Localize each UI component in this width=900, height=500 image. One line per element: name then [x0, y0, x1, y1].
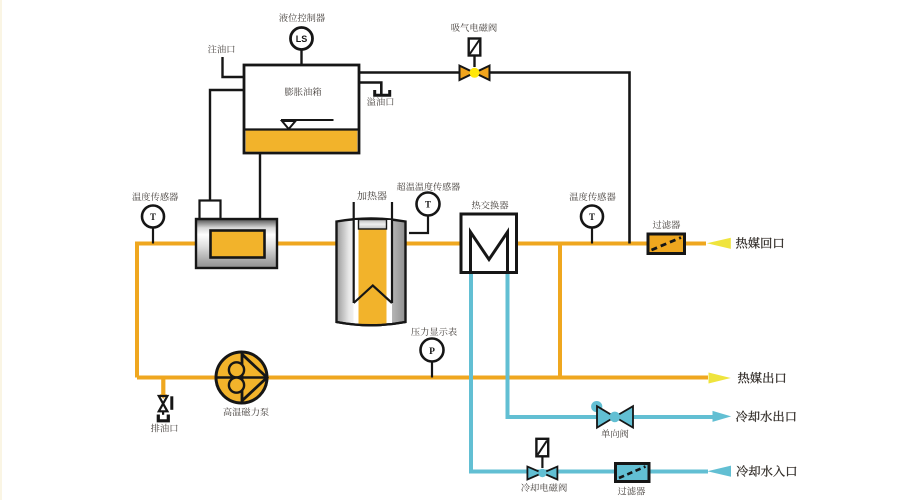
hot oil filter: [648, 234, 685, 254]
wire: loop riser pipe: [558, 244, 562, 378]
svg-text:T: T: [589, 212, 595, 222]
temperature sensor T3: [581, 206, 603, 228]
cooling solenoid valve body: [527, 467, 557, 480]
cooling valve actuator: [536, 439, 548, 457]
drain arrowhead: [160, 394, 167, 399]
wire: T1 stem: [152, 227, 154, 244]
temperature control unit body: [196, 219, 277, 268]
heater element chevron: [354, 286, 392, 304]
heater element leads: [353, 202, 355, 303]
label 冷却电磁阀 (cooling solenoid valve): [521, 483, 567, 492]
svg-text:P: P: [429, 347, 435, 357]
label 溢油口 (overflow port): [367, 97, 394, 106]
pump: high temperature magnetic pump: [216, 352, 267, 403]
page left edge tint: [0, 0, 2, 500]
heater inner channel: [354, 220, 393, 323]
suction valve ball: [470, 68, 480, 78]
heater core: [359, 221, 387, 325]
wire: oil inlet port line: [223, 57, 245, 77]
wire: hot oil supply pipe (top run): [137, 244, 706, 378]
controller terminal box: [200, 201, 221, 220]
svg-text:T: T: [425, 200, 431, 210]
cooling valve stem: [541, 457, 543, 469]
controller display window: [211, 231, 265, 258]
heater vessel: [337, 219, 406, 326]
heat exchanger coil M: [471, 232, 508, 273]
label 热交换器 (heat exchanger): [472, 201, 509, 210]
wire: cooling water inlet pipe: [471, 272, 708, 472]
wire: T2 stem: [409, 215, 428, 233]
wire: tank bottom to controller: [259, 153, 261, 219]
label 注油口 (oil fill port): [208, 45, 235, 54]
over-temperature sensor T2: [417, 193, 440, 216]
check valve body: [597, 406, 633, 427]
arrow: 冷却水出口 (cooling water outlet): [713, 411, 732, 422]
level indicator mark: [281, 119, 334, 121]
overflow port symbol: [375, 90, 390, 95]
wire: overflow line: [359, 83, 381, 95]
label 热媒回口: [736, 237, 783, 248]
heat exchanger body: [461, 214, 517, 273]
wire: LS stem: [300, 49, 302, 65]
label 压力显示表 (pressure display): [411, 327, 457, 336]
pump rotor 8: [229, 362, 244, 377]
oil level in tank: [246, 130, 358, 152]
expansion tank: [244, 65, 359, 153]
wire: P stem: [431, 361, 433, 378]
pump impeller triangle: [242, 354, 267, 401]
label 液位控制器 (level controller): [279, 13, 325, 22]
label 冷却水入口: [737, 465, 797, 476]
label 温度传感器 (temperature sensor): [132, 192, 178, 201]
heater vessel bottom rim: [337, 322, 406, 325]
temperature sensor T1: [142, 206, 164, 228]
arrow: 热媒出口 (heat medium outlet): [709, 373, 731, 384]
label 高温磁力泵 (magnetic pump): [223, 407, 268, 416]
label 过滤器 (oil filter): [653, 220, 680, 229]
label 冷却水出口: [736, 411, 796, 422]
wire: hot oil return pipe (bottom run): [137, 376, 708, 380]
svg-text:T: T: [150, 212, 156, 222]
label 热媒出口: [738, 372, 785, 383]
wire: tank to suction valve and down to main pipe: [359, 73, 630, 244]
wire: T3 stem: [591, 227, 593, 244]
arrow: 冷却水入口 (cooling water inlet): [707, 466, 731, 477]
suction solenoid valve body: [460, 66, 490, 80]
label 超温温度传感器 (over-temp sensor): [397, 182, 460, 191]
label 单向阀 (check valve): [601, 429, 628, 438]
drain port cup: [158, 415, 168, 421]
pressure gauge P: [421, 339, 444, 362]
label 排油口 (drain port): [151, 424, 178, 433]
label 膨胀油箱 (expansion tank): [285, 87, 321, 96]
check valve ball (top): [591, 401, 602, 412]
pump shaft line: [216, 376, 267, 379]
label 温度传感器 right (temperature sensor): [570, 192, 616, 201]
level controller LS: [291, 28, 313, 50]
wire: drain stub: [161, 378, 165, 395]
svg-text:LS: LS: [296, 34, 308, 44]
cooling water filter: [616, 464, 650, 482]
suction valve actuator: [469, 39, 481, 56]
check valve center ball: [610, 412, 621, 423]
suction valve stem: [473, 56, 475, 68]
drain valve: [159, 396, 168, 411]
label 吸气电磁阀 (suction solenoid valve): [452, 23, 497, 32]
label 过滤器 (water filter): [618, 487, 645, 496]
arrow: 热媒回口 (heat medium return): [707, 238, 731, 249]
wire: cooling water outlet pipe: [508, 272, 714, 417]
heater core cap: [359, 220, 387, 230]
label 加热器 (heater): [357, 191, 386, 200]
wire: tank left to controller terminal: [210, 90, 244, 201]
cooling valve ball: [538, 469, 546, 477]
